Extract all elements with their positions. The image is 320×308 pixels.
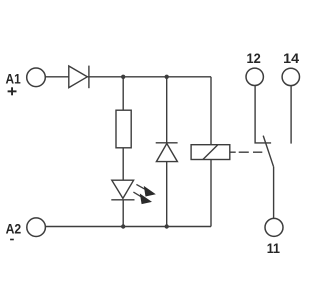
junction bottom LED branch — [121, 224, 125, 228]
mechanical linkage dashed line — [230, 151, 262, 153]
wire relay coil to bottom rail — [210, 160, 212, 227]
relay coil — [191, 145, 230, 160]
wire lever to terminal 11 — [273, 167, 275, 218]
terminal 12 — [246, 68, 263, 85]
resistor — [116, 110, 131, 148]
junction top resistor branch — [121, 75, 125, 79]
terminal A1 — [27, 68, 46, 87]
wire top rail to relay coil — [210, 77, 212, 145]
junction top freewheel branch — [165, 75, 169, 79]
contact lever — [263, 136, 273, 167]
wire top rail to resistor — [122, 77, 124, 110]
svg-text:A1: A1 — [6, 71, 21, 87]
LED — [111, 180, 134, 200]
wire LED to bottom rail — [122, 200, 124, 227]
wire top rail — [87, 76, 211, 78]
junction bottom freewheel branch — [165, 224, 169, 228]
svg-text:11: 11 — [267, 240, 280, 256]
svg-text:12: 12 — [247, 50, 261, 66]
series diode — [69, 66, 89, 89]
LED light arrow 2 — [133, 192, 152, 204]
wire terminal 12 to fixed contact — [255, 86, 271, 143]
terminal 11 — [265, 218, 283, 236]
svg-text:A2: A2 — [6, 221, 22, 237]
wire freewheel diode to bottom rail — [166, 162, 168, 227]
freewheel diode — [156, 143, 178, 162]
label minus — [10, 239, 14, 241]
terminal A2 — [27, 218, 46, 237]
wire A1 to diode — [46, 76, 69, 78]
wire terminal 14 open contact — [290, 86, 292, 144]
wire resistor to LED — [122, 148, 124, 180]
svg-text:14: 14 — [283, 50, 299, 66]
bottom rail wire — [46, 226, 211, 228]
terminal 14 — [282, 68, 299, 85]
LED light arrow 1 — [136, 184, 155, 196]
wire top rail to freewheel diode — [166, 77, 168, 144]
label plus — [8, 87, 17, 95]
